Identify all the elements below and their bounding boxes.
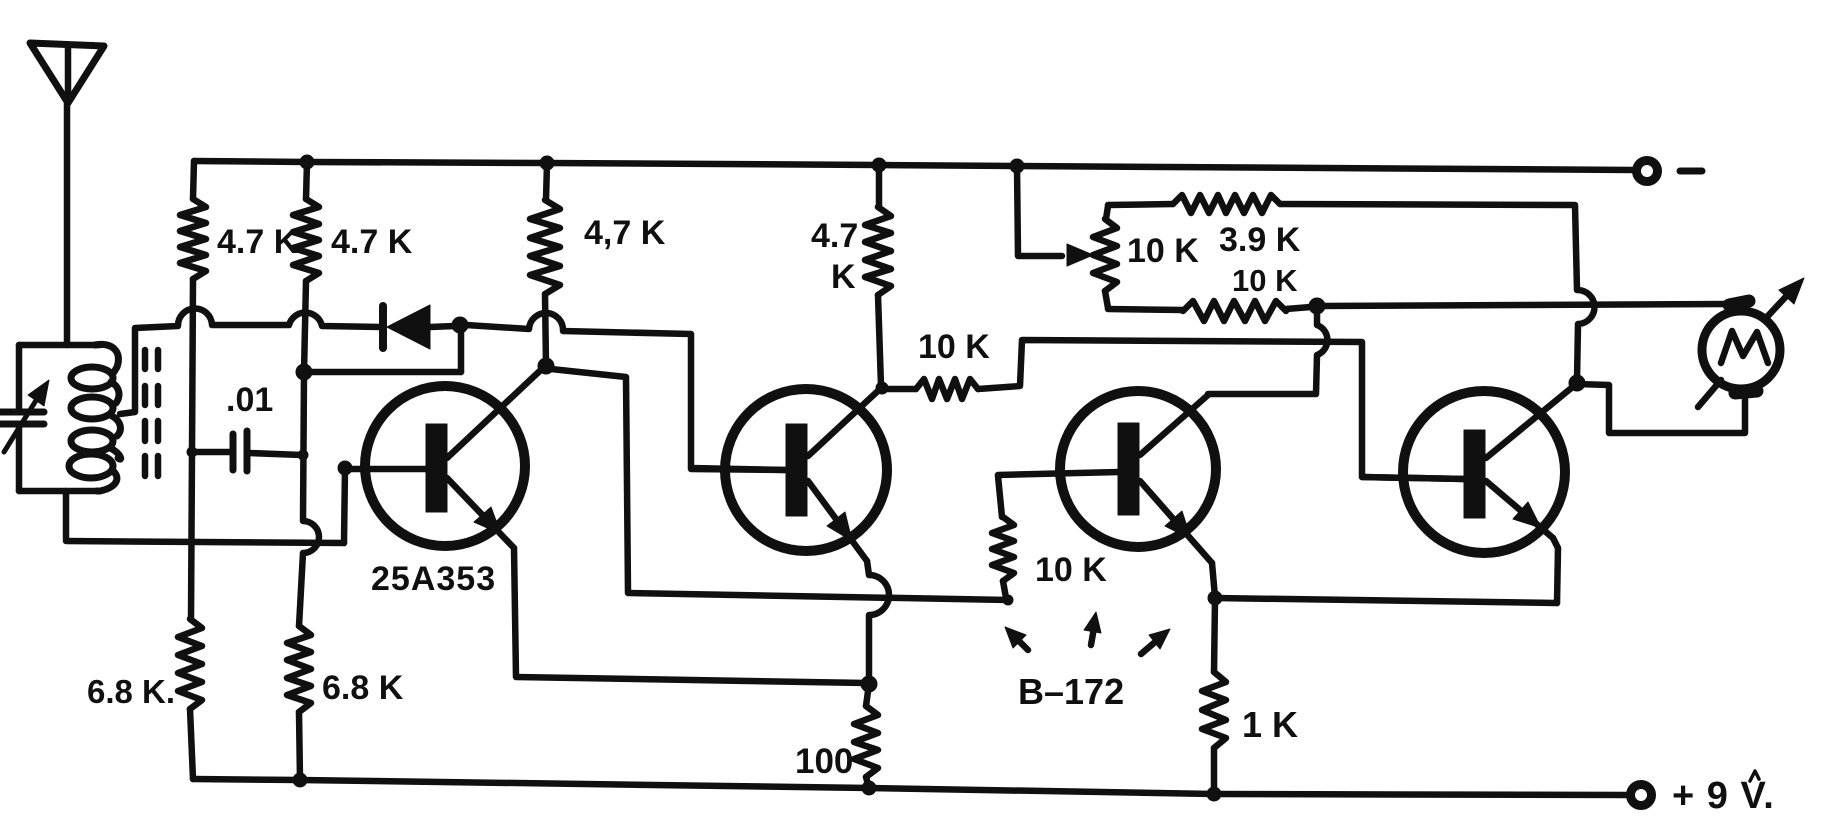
wire Q1 emitter to 100 ohm node — [514, 548, 866, 683]
node R8 bottom — [1003, 595, 1013, 605]
arrow to Q4 — [1141, 629, 1170, 654]
label R7 10 K — [918, 328, 990, 366]
svg-text:10 K: 10 K — [918, 328, 990, 366]
node bus/R4 — [872, 158, 886, 172]
wire R7 to Q4 base — [978, 340, 1464, 479]
node R2 column / C2 — [296, 364, 312, 380]
coil L1 — [69, 344, 121, 491]
label C2 .01 — [226, 381, 273, 419]
transistor Q3 — [998, 391, 1216, 563]
svg-text:.01: .01 — [226, 381, 273, 419]
label R8 10 K — [1035, 551, 1107, 589]
resistor 100 — [854, 684, 878, 788]
node meter line — [1309, 298, 1325, 314]
wire Q4 emitter down to emitter bus — [1553, 538, 1558, 603]
resistor R6 6.8K — [287, 626, 311, 780]
label 10 K (lower) — [1232, 263, 1298, 298]
label +9V — [1672, 771, 1775, 817]
transistor Q1 25A353 — [345, 367, 544, 548]
label R4 4.7 K (two lines) — [811, 217, 858, 296]
wire coil tap to diode (hops over R1,R2 columns) — [120, 309, 381, 414]
label R6 6.8 K — [322, 669, 404, 707]
svg-text:4.7 K: 4.7 K — [331, 223, 413, 261]
label 3.9 K — [1219, 221, 1301, 259]
node bus/R2 — [300, 155, 314, 169]
meter M — [1702, 301, 1780, 393]
resistor 1K — [1202, 599, 1226, 793]
resistor 3.9K and wire to Q4 collector (hop) — [1108, 195, 1595, 380]
svg-text:25A353: 25A353 — [371, 560, 496, 598]
svg-text:10 K: 10 K — [1127, 232, 1199, 270]
node bus/R6 — [293, 773, 307, 787]
node bus/R3 — [540, 156, 554, 170]
svg-text:4.7: 4.7 — [811, 217, 858, 255]
wire negative bus (top) — [194, 161, 1633, 170]
node diode output — [452, 317, 468, 333]
wire Q3 collector to meter node (hop) — [1208, 310, 1327, 394]
svg-text:100: 100 — [795, 742, 853, 781]
wire Q1 collector node to R8 bottom — [551, 369, 1008, 600]
potentiometer 10K — [1093, 206, 1117, 308]
label Q1 25A353 — [371, 560, 496, 598]
wire wiper from bus — [1017, 166, 1093, 266]
svg-text:4,7 K: 4,7 K — [584, 214, 666, 252]
node bus/pot wiper — [1010, 159, 1024, 173]
svg-text:3.9 K: 3.9 K — [1219, 221, 1301, 259]
arrow to Q3 — [1084, 612, 1101, 645]
svg-text:10 K: 10 K — [1035, 551, 1107, 589]
transistor Q2 — [691, 389, 887, 561]
wire Q3 emitter to 1K node — [1212, 563, 1215, 597]
resistor 10K (pot bottom) — [1108, 301, 1311, 321]
resistor R7 10K — [884, 379, 978, 399]
wire positive bus (bottom) — [193, 779, 1628, 795]
capacitor C2 .01 — [187, 431, 308, 471]
svg-text:+ 9 V.: + 9 V. — [1672, 775, 1775, 817]
wire emitter bus Q3-Q4 — [1215, 598, 1557, 603]
resistor R3 4.7K — [530, 163, 560, 366]
wire tank bottom to Q1 base — [66, 468, 345, 543]
diode D1 — [383, 305, 455, 349]
meter adjust arrow — [1698, 278, 1804, 407]
resistor R2 4.7K — [293, 162, 319, 281]
transistor Q4 — [1362, 385, 1575, 553]
resistor R8 10K — [992, 476, 1014, 598]
node Q1 base — [338, 461, 352, 475]
node bus/R100 — [862, 781, 876, 795]
svg-text:6.8 K.: 6.8 K. — [87, 673, 175, 710]
wire tank top — [19, 342, 100, 349]
svg-text:4.7 K: 4.7 K — [217, 223, 299, 261]
label B-172 — [1018, 671, 1124, 712]
label R3 4,7 K — [584, 214, 666, 252]
label R2 4.7 K — [331, 223, 413, 261]
resistor R4 4.7K — [865, 165, 891, 386]
wire Q2 emitter (hop over R8 line) — [867, 561, 889, 680]
node 100 ohm top — [861, 676, 877, 692]
wire diode node down to C2 node — [308, 330, 461, 372]
wire diode node to Q2 base (hop over R3 column) — [466, 313, 786, 470]
wire Q4 collector to meter bottom — [1577, 384, 1745, 433]
svg-text:10 K: 10 K — [1232, 263, 1298, 298]
variable capacitor C1 — [0, 345, 49, 491]
terminal negative — [1637, 161, 1703, 182]
svg-text:1 K: 1 K — [1242, 704, 1298, 745]
label 100 — [795, 742, 853, 781]
resistor R1 4.7K — [180, 161, 206, 279]
resistor R5 6.8K — [178, 619, 202, 779]
node Q2 collector — [876, 382, 888, 394]
terminal positive — [1631, 785, 1652, 806]
svg-text:6.8 K: 6.8 K — [322, 669, 404, 707]
node bus/R1K — [1207, 787, 1221, 801]
label R5 6.8 K. — [87, 673, 175, 710]
node Q4 collector — [1569, 375, 1585, 391]
svg-text:K: K — [831, 258, 856, 296]
arrow to Q2 — [1005, 627, 1028, 650]
antenna — [30, 43, 104, 345]
wire tank bottom — [19, 488, 97, 495]
ferrite core (dashed) — [145, 350, 158, 476]
label R1 4.7 K — [217, 223, 299, 261]
node Q1 collector — [538, 358, 554, 374]
wire left column — [191, 279, 193, 619]
node 1K top — [1208, 591, 1222, 605]
wire second column (hop over base line) — [299, 281, 319, 626]
wire meter top line — [1317, 304, 1728, 306]
label 1 K — [1242, 704, 1298, 745]
svg-text:B–172: B–172 — [1018, 671, 1124, 712]
label pot 10 K — [1127, 232, 1199, 270]
